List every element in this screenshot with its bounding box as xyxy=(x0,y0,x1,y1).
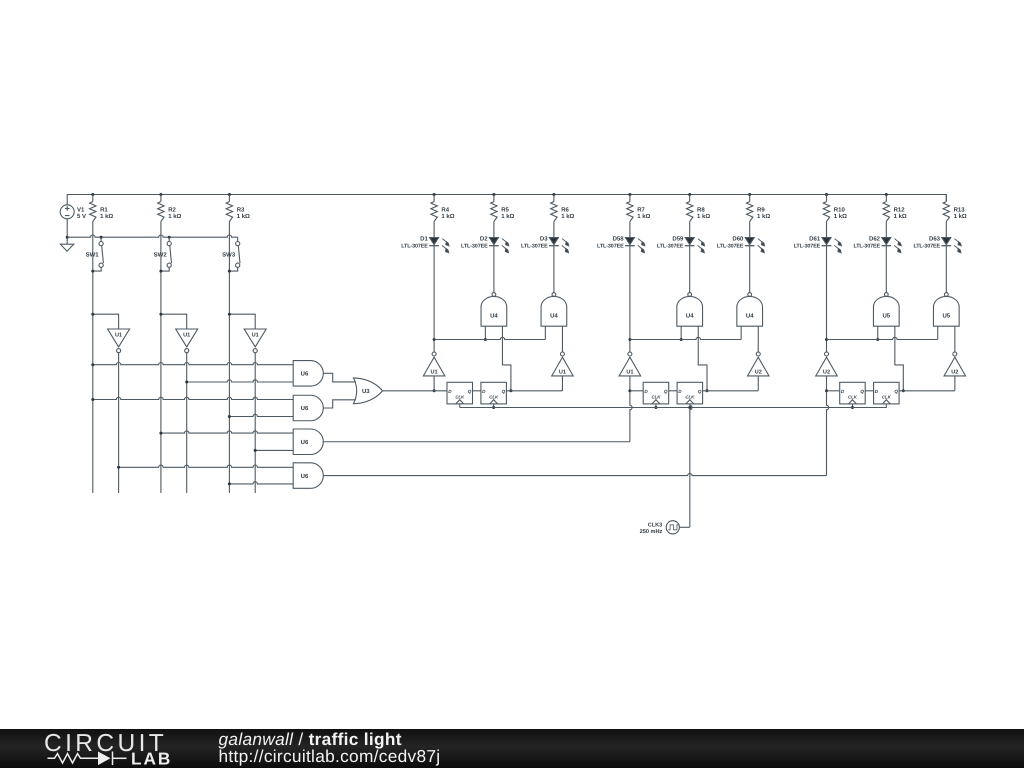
resistor R7 xyxy=(627,195,633,222)
wire FF interconnect g3 xyxy=(865,390,873,392)
wire right inverter input g3 xyxy=(954,376,956,391)
junction dot bus x=160.9 xyxy=(159,193,162,196)
svg-text:U1: U1 xyxy=(431,370,438,376)
svg-text:R5: R5 xyxy=(501,206,509,213)
resistor R3 xyxy=(226,195,232,222)
ground xyxy=(60,244,73,251)
svg-text:R12: R12 xyxy=(894,206,906,213)
label R10 xyxy=(834,206,847,220)
label CLK g2#2 xyxy=(685,395,695,400)
resistor R5 xyxy=(491,195,497,222)
wire LED D61 down xyxy=(826,246,828,352)
svg-text:R7: R7 xyxy=(637,206,645,213)
label R9 xyxy=(757,206,770,220)
junction dot row 3 xyxy=(91,398,94,401)
svg-text:LTL-307EE: LTL-307EE xyxy=(521,243,548,249)
resistor R2 xyxy=(158,195,164,222)
label D g1#2 xyxy=(482,389,486,394)
junction dot clk g2#1 xyxy=(654,406,657,409)
and-gate U6 #4 xyxy=(293,463,323,489)
wire CLK3 to riser xyxy=(679,526,689,528)
junction dot bus x=689.7 xyxy=(688,193,691,196)
svg-text:D2: D2 xyxy=(480,236,488,243)
wire right inverter input g1 xyxy=(561,376,563,391)
wire LED D62 down xyxy=(885,246,887,292)
wire inverter input + riser g3 xyxy=(827,376,829,476)
junction dot bus x=629.9 xyxy=(628,193,631,196)
svg-text:D61: D61 xyxy=(809,236,821,243)
wire inverter input g1 xyxy=(433,376,435,391)
junction dot row 2 xyxy=(185,381,188,384)
resistor R12 xyxy=(883,195,889,222)
svg-text:http://circuitlab.com/cedv87j: http://circuitlab.com/cedv87j xyxy=(219,746,441,766)
label U2 g2 1 xyxy=(755,370,762,376)
wire inverter column 2 output xyxy=(186,353,188,493)
LED D2 xyxy=(489,238,509,253)
wire FF interconnect g2 xyxy=(669,390,677,392)
wire R12 to LED xyxy=(885,222,887,238)
junction dot D line g1 xyxy=(433,389,436,392)
wire LED D60 down xyxy=(749,246,751,292)
junction dot clk g1#2 xyxy=(492,406,495,409)
wire R5 to LED xyxy=(493,222,495,238)
label U1 g1 1 xyxy=(559,370,566,376)
junction dot bus x=749.7 xyxy=(748,193,751,196)
wire switch feed line xyxy=(67,235,238,237)
resistor R6 xyxy=(551,195,557,222)
label CLK g3#1 xyxy=(848,395,858,400)
wire R2 column xyxy=(160,222,162,494)
wire V1 to node xyxy=(66,219,68,244)
logo resistor-diode graphic xyxy=(48,752,127,766)
svg-text:CLK: CLK xyxy=(882,395,892,400)
junction dot row 4 xyxy=(228,415,231,418)
svg-text:1 kΩ: 1 kΩ xyxy=(697,213,710,220)
flip-flop U7 g1 #1 xyxy=(447,382,473,404)
label D59 xyxy=(657,236,684,250)
svg-text:D62: D62 xyxy=(869,236,881,243)
svg-text:R4: R4 xyxy=(441,206,449,213)
wire nand1 right input jog g1 xyxy=(502,326,510,391)
label D1 xyxy=(401,236,428,250)
junction dot SW1 tap xyxy=(100,236,103,239)
switch SW1 xyxy=(93,237,104,271)
label D61 xyxy=(794,236,821,250)
svg-text:LTL-307EE: LTL-307EE xyxy=(461,243,488,249)
wire D line g2 xyxy=(630,390,643,392)
wire U6#4 output xyxy=(323,473,826,475)
svg-text:1 kΩ: 1 kΩ xyxy=(637,213,650,220)
label U1 g2 0 xyxy=(626,370,633,376)
svg-text:1 kΩ: 1 kΩ xyxy=(501,213,514,220)
label CLK3 xyxy=(640,523,663,536)
svg-text:CLK: CLK xyxy=(848,395,858,400)
wire nand2 left input g1 xyxy=(544,326,546,339)
label U1 g1 0 xyxy=(431,370,438,376)
svg-text:1 kΩ: 1 kΩ xyxy=(237,213,250,220)
svg-text:D59: D59 xyxy=(672,236,684,243)
nand-gate U4 #2 (group 1) xyxy=(541,293,567,327)
flip-flop U7 g1 #2 xyxy=(481,382,507,404)
junction dot D line g2 xyxy=(628,389,631,392)
inverter U1 (group 1 right) xyxy=(552,352,574,376)
wire inverter input + riser g2 xyxy=(630,376,632,442)
label Q g1#1 xyxy=(468,389,472,394)
svg-text:R6: R6 xyxy=(561,206,569,213)
svg-text:Q: Q xyxy=(468,389,472,394)
svg-text:LTL-307EE: LTL-307EE xyxy=(853,243,880,249)
junction dot row 1 xyxy=(91,363,94,366)
svg-text:V1: V1 xyxy=(77,206,85,213)
label U2 g3 1 xyxy=(951,370,958,376)
wire R10 to LED xyxy=(826,222,828,238)
wire LED D59 down xyxy=(689,246,691,292)
wire FF1 g2 clk stub xyxy=(655,404,657,408)
svg-text:1 kΩ: 1 kΩ xyxy=(561,213,574,220)
svg-text:D60: D60 xyxy=(732,236,744,243)
switch SW3 xyxy=(229,237,240,271)
resistor R9 xyxy=(747,195,753,222)
nand-gate U4 #1 (group 2) xyxy=(677,293,703,327)
label R7 xyxy=(637,206,650,220)
svg-text:5 V: 5 V xyxy=(77,213,86,220)
svg-text:SW1: SW1 xyxy=(86,252,100,259)
and-gate U6 #1 xyxy=(293,361,323,387)
flip-flop U7 g2 #1 xyxy=(643,382,669,404)
label SW3 xyxy=(222,252,236,259)
wire matrix row 4 xyxy=(229,414,293,416)
junction dot CLK3 clock line xyxy=(688,406,691,409)
svg-text:R3: R3 xyxy=(237,206,245,213)
inverter U1 (column 1) xyxy=(108,329,130,353)
label SW1 xyxy=(86,252,100,259)
wire FF1 g3 clk stub xyxy=(851,404,853,408)
label U4 #2 g2 xyxy=(746,312,754,319)
label D g2#1 xyxy=(644,389,648,394)
junction dot column 1 inverter tap xyxy=(91,313,94,316)
wire nand2 right input g3 xyxy=(954,326,956,352)
junction dot nand1 left g1 xyxy=(484,338,487,341)
wire matrix row 1 xyxy=(93,363,293,365)
svg-text:1 kΩ: 1 kΩ xyxy=(100,213,113,220)
resistor R4 xyxy=(431,195,437,222)
junction dot SW2 tap xyxy=(168,236,171,239)
label inverter column 3 xyxy=(252,332,259,338)
label R6 xyxy=(561,206,574,220)
junction dot clk g3#1 xyxy=(851,406,854,409)
wire to inverter U1 column 1 xyxy=(93,314,119,329)
resistor R10 xyxy=(823,195,829,222)
label D g2#2 xyxy=(678,389,682,394)
label U3 xyxy=(362,388,370,395)
label U4 #1 g1 xyxy=(490,312,498,319)
wire LED D63 down xyxy=(945,246,947,292)
wire R4 to LED xyxy=(433,222,435,238)
LED D58 xyxy=(625,238,645,253)
svg-text:R8: R8 xyxy=(697,206,705,213)
junction dot bus x=92.8 xyxy=(91,193,94,196)
wire nand1 left input g3 xyxy=(877,326,879,339)
resistor R13 xyxy=(943,195,949,222)
svg-text:U6: U6 xyxy=(301,405,309,412)
svg-text:D: D xyxy=(644,389,648,394)
svg-text:1 kΩ: 1 kΩ xyxy=(168,213,181,220)
svg-text:LTL-307EE: LTL-307EE xyxy=(401,243,428,249)
wire Q line g1 xyxy=(506,390,562,392)
label D3 xyxy=(521,236,548,250)
svg-text:250 mHz: 250 mHz xyxy=(640,529,663,535)
wire nand2 right input g1 xyxy=(561,326,563,352)
svg-text:U2: U2 xyxy=(823,370,830,376)
junction dot column 3 inverter tap xyxy=(228,313,231,316)
inverter U2 (group 2 right) xyxy=(748,352,770,376)
label U4 #2 g1 xyxy=(550,312,558,319)
label D g1#1 xyxy=(448,389,452,394)
nand-gate U4 #2 (group 2) xyxy=(737,293,763,327)
svg-text:LTL-307EE: LTL-307EE xyxy=(913,243,940,249)
switch SW2 xyxy=(161,237,172,271)
svg-text:CLK3: CLK3 xyxy=(648,523,663,529)
wire matrix row 8 xyxy=(229,482,293,484)
svg-text:D63: D63 xyxy=(929,236,941,243)
wire right inverter input g2 xyxy=(757,376,759,391)
junction dot D58 row xyxy=(628,338,631,341)
svg-text:1 kΩ: 1 kΩ xyxy=(894,213,907,220)
label U6 #4 xyxy=(301,473,309,480)
wire CLK3 riser xyxy=(690,404,692,527)
label R13 xyxy=(954,206,967,220)
svg-text:U4: U4 xyxy=(550,312,558,319)
label R8 xyxy=(697,206,710,220)
footer url line xyxy=(219,746,441,766)
label D58 xyxy=(597,236,624,250)
wire FF2 g1 clk stub xyxy=(493,404,495,408)
nand-gate U5 #2 (group 3) xyxy=(933,293,959,327)
label D2 xyxy=(461,236,488,250)
wire Q line g3 xyxy=(899,390,955,392)
flip-flop U7 g3 #2 xyxy=(874,382,900,404)
wire matrix row 5 xyxy=(161,431,293,433)
wire inverter column 3 output xyxy=(254,353,256,493)
svg-text:1 kΩ: 1 kΩ xyxy=(441,213,454,220)
label U5 #2 g3 xyxy=(942,312,950,319)
voltage source V1 xyxy=(60,205,74,219)
label R3 xyxy=(237,206,250,220)
svg-text:R1: R1 xyxy=(100,206,108,213)
and-gate U6 #2 xyxy=(293,395,323,421)
junction dot row 7 xyxy=(117,466,120,469)
logo LAB text xyxy=(131,749,172,768)
label inverter column 2 xyxy=(183,332,190,338)
junction dot bus x=493.9 xyxy=(492,193,495,196)
inverter U1 (group 2 left) xyxy=(619,352,641,376)
wire Q line g2 xyxy=(703,390,759,392)
svg-text:LTL-307EE: LTL-307EE xyxy=(597,243,624,249)
junction dot bus x=434.1 xyxy=(433,193,436,196)
wire nand input row g1 xyxy=(434,337,545,339)
label D62 xyxy=(853,236,880,250)
junction dot D line g3 xyxy=(825,389,828,392)
wire D line g3 xyxy=(827,390,840,392)
svg-text:U1: U1 xyxy=(252,332,259,338)
svg-text:1 kΩ: 1 kΩ xyxy=(757,213,770,220)
inverter U1 (column 2) xyxy=(176,329,198,353)
svg-text:CLK: CLK xyxy=(489,395,499,400)
label R2 xyxy=(168,206,181,220)
svg-text:1 kΩ: 1 kΩ xyxy=(954,213,967,220)
svg-text:D: D xyxy=(678,389,682,394)
svg-text:U4: U4 xyxy=(746,312,754,319)
wire inverter column 1 output xyxy=(118,353,120,493)
label U6 #1 xyxy=(301,371,309,378)
svg-text:U6: U6 xyxy=(301,473,309,480)
wire LED D58 down xyxy=(629,246,631,352)
svg-text:R2: R2 xyxy=(168,206,176,213)
wire nand2 right input g2 xyxy=(757,326,759,352)
logo CIRCUIT text xyxy=(44,730,167,757)
nand-gate U4 #1 (group 1) xyxy=(481,293,507,327)
label CLK g1#1 xyxy=(455,395,465,400)
wire nand2 left input g3 xyxy=(937,326,939,339)
svg-text:LTL-307EE: LTL-307EE xyxy=(794,243,821,249)
junction dot SW3 bottom xyxy=(228,270,231,273)
junction dot nand1 left g2 xyxy=(680,338,683,341)
junction dot SW2 bottom xyxy=(159,270,162,273)
svg-text:SW2: SW2 xyxy=(154,252,168,259)
LED D60 xyxy=(745,238,765,253)
junction dot Q line g2 xyxy=(706,389,709,392)
svg-text:U2: U2 xyxy=(951,370,958,376)
wire LED D3 down xyxy=(553,246,555,292)
label inverter column 1 xyxy=(115,332,122,338)
junction dot bus x=553.9 xyxy=(552,193,555,196)
svg-text:D: D xyxy=(875,389,879,394)
svg-text:LAB: LAB xyxy=(131,749,172,768)
wire LED D2 down xyxy=(493,246,495,292)
wire U6#3 output xyxy=(323,441,630,443)
wire FF interconnect g1 xyxy=(473,390,481,392)
svg-text:CLK: CLK xyxy=(652,395,662,400)
footer title line xyxy=(219,729,402,749)
label U2 g3 0 xyxy=(823,370,830,376)
label V1 xyxy=(77,206,86,220)
label D60 xyxy=(717,236,744,250)
wire clock line xyxy=(460,404,887,408)
wire R3 column xyxy=(228,222,230,494)
svg-text:U6: U6 xyxy=(301,439,309,446)
svg-text:D: D xyxy=(841,389,845,394)
LED D1 xyxy=(429,238,449,253)
nand-gate U5 #1 (group 3) xyxy=(873,293,899,327)
junction dot Q line g3 xyxy=(902,389,905,392)
junction dot bus x=229.4 xyxy=(228,193,231,196)
wire LED D1 down xyxy=(433,246,435,352)
svg-text:SW3: SW3 xyxy=(222,252,236,259)
svg-text:D58: D58 xyxy=(613,236,625,243)
junction dot Q line g1 xyxy=(509,389,512,392)
resistor R1 xyxy=(90,195,96,222)
inverter U1 (group 1 left) xyxy=(423,352,445,376)
wire nand1 right input jog g3 xyxy=(895,326,903,391)
LED D61 xyxy=(822,238,842,253)
svg-text:U4: U4 xyxy=(490,312,498,319)
svg-text:LTL-307EE: LTL-307EE xyxy=(657,243,684,249)
svg-text:CLK: CLK xyxy=(455,395,465,400)
wire FF1 g1 clk stub xyxy=(459,404,461,408)
junction dot nand1 left g3 xyxy=(876,338,879,341)
wire R6 to LED xyxy=(553,222,555,238)
svg-text:D: D xyxy=(482,389,486,394)
LED D3 xyxy=(549,238,569,253)
wire nand input row g3 xyxy=(827,337,938,339)
wire matrix row 7 xyxy=(119,465,294,467)
inverter U1 (column 3) xyxy=(244,329,266,353)
LED D63 xyxy=(941,238,961,253)
junction dot D1 row xyxy=(433,338,436,341)
or-gate U3 xyxy=(353,378,382,404)
label Q g2#1 xyxy=(664,389,668,394)
svg-text:Q: Q xyxy=(502,389,506,394)
label D g3#2 xyxy=(875,389,879,394)
label R1 xyxy=(100,206,113,220)
svg-text:U3: U3 xyxy=(362,388,370,395)
label CLK g1#2 xyxy=(489,395,499,400)
label Q g1#2 xyxy=(502,389,506,394)
label D g3#1 xyxy=(841,389,845,394)
wire nand1 left input g2 xyxy=(680,326,682,339)
label SW2 xyxy=(154,252,168,259)
svg-text:D: D xyxy=(448,389,452,394)
svg-text:U1: U1 xyxy=(626,370,633,376)
junction dot bus x=886.3 xyxy=(885,193,888,196)
label Q g3#2 xyxy=(894,389,898,394)
wire R13 to LED xyxy=(945,222,947,238)
junction dot SW1 bottom xyxy=(91,270,94,273)
svg-text:Q: Q xyxy=(664,389,668,394)
wire R7 to LED xyxy=(629,222,631,238)
label R12 xyxy=(894,206,907,220)
label U5 #1 g3 xyxy=(882,312,890,319)
flip-flop U7 g2 #2 xyxy=(677,382,703,404)
wire nand2 left input g2 xyxy=(740,326,742,339)
wire U6#1 to U3 xyxy=(323,373,356,382)
wire R1 column xyxy=(92,222,94,494)
svg-text:LTL-307EE: LTL-307EE xyxy=(717,243,744,249)
svg-text:Q: Q xyxy=(894,389,898,394)
junction dot V1 ground node xyxy=(66,236,69,239)
label D63 xyxy=(913,236,940,250)
LED D62 xyxy=(881,238,901,253)
label R4 xyxy=(441,206,454,220)
junction dot row 6 xyxy=(254,449,257,452)
wire R8 to LED xyxy=(689,222,691,238)
svg-text:D1: D1 xyxy=(420,236,428,243)
wire nand1 right input jog g2 xyxy=(698,326,707,391)
footer bar xyxy=(0,729,1024,768)
wire R9 to LED xyxy=(749,222,751,238)
wire matrix row 6 xyxy=(255,449,293,451)
junction dot D61 row xyxy=(825,338,828,341)
label Q g3#1 xyxy=(860,389,864,394)
svg-text:U1: U1 xyxy=(183,332,190,338)
svg-text:U2: U2 xyxy=(755,370,762,376)
label Q g2#2 xyxy=(698,389,702,394)
wire matrix row 3 xyxy=(93,397,293,399)
and-gate U6 #3 xyxy=(293,429,323,455)
wire to inverter U1 column 2 xyxy=(161,314,187,329)
label CLK g3#2 xyxy=(882,395,892,400)
wire U6#2 to U3 xyxy=(323,400,356,408)
